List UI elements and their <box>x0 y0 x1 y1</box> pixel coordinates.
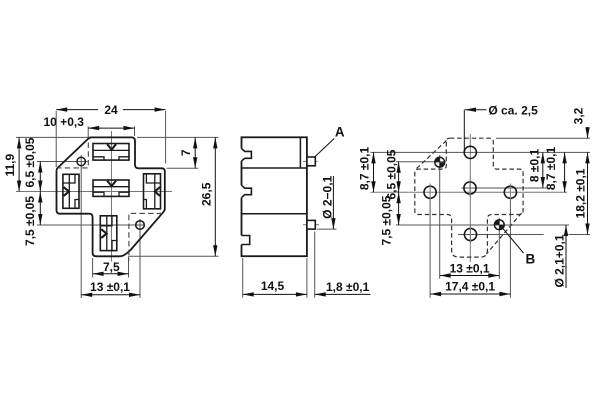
hidden corner dashed top-left <box>58 143 88 168</box>
svg-text:26,5: 26,5 <box>200 182 214 206</box>
extension line 7,5 bottom right <box>128 257 130 278</box>
extension line hole2 horizontal (for 7,5 left) <box>37 224 145 226</box>
middle view division line 2 <box>242 213 307 215</box>
label B leader <box>503 228 524 253</box>
notch 3 <box>240 236 249 245</box>
svg-text:1,8 ±0,1: 1,8 ±0,1 <box>326 280 370 294</box>
dimension 26,5 <box>200 137 216 256</box>
dimension 13 ±0,1 left view <box>81 280 140 295</box>
extension line top edge left (for 11,9) <box>16 136 91 138</box>
left view vertical center line <box>111 131 113 262</box>
dimension 7,5 ±0,05 right view <box>380 192 399 245</box>
dimension 13 ±0,1 right view <box>440 261 500 275</box>
dimension Ø 2,1+0,1 leader <box>553 225 567 288</box>
label B <box>525 252 535 267</box>
svg-text:Ø 2−0,1: Ø 2−0,1 <box>320 175 334 218</box>
Ø 2-0,1 leader with arrow <box>332 176 334 229</box>
middle view body <box>242 137 307 256</box>
dimension 24 <box>56 103 165 117</box>
extension line top hole horizontal <box>371 151 591 153</box>
extension line 7,5 bottom left <box>92 258 94 278</box>
svg-text:A: A <box>335 125 345 140</box>
svg-text:6,5 ±0,05: 6,5 ±0,05 <box>23 137 37 187</box>
svg-text:Ø ca. 2,5: Ø ca. 2,5 <box>488 104 538 118</box>
Ø 2-0,1 text <box>320 175 334 218</box>
peg A (upper) <box>307 157 315 166</box>
extension line hole1 vertical (for 13) <box>80 155 82 298</box>
left hole <box>424 184 436 202</box>
peg A center line <box>303 160 318 162</box>
right slot <box>144 174 161 209</box>
extension line 24 right <box>165 111 167 164</box>
dimension 18,2 ±0,1 <box>574 152 588 234</box>
svg-text:8 ±0,1: 8 ±0,1 <box>528 149 542 183</box>
extension line 1,8 right <box>314 232 316 298</box>
extension line 10+0,3 right <box>134 126 136 136</box>
svg-text:24: 24 <box>104 103 118 117</box>
extension line pin A horizontal <box>396 161 446 163</box>
svg-text:Ø 2,1+0,1: Ø 2,1+0,1 <box>553 234 567 287</box>
svg-text:7,5 ±0,05: 7,5 ±0,05 <box>380 195 394 245</box>
dimension 10+0,3 <box>44 115 135 129</box>
Ø ca. 2,5 text <box>488 104 538 118</box>
bottom slot <box>100 216 117 251</box>
svg-text:3,2: 3,2 <box>572 107 586 124</box>
dimension 8,7 ±0,1 left <box>358 147 374 193</box>
svg-text:11,9: 11,9 <box>3 154 17 177</box>
extension line hole1 horizontal (for 6,5) <box>37 161 88 163</box>
middle view inner vertical line <box>299 137 301 168</box>
pin B (filled) <box>494 220 504 230</box>
svg-text:6,5 ±0,05: 6,5 ±0,05 <box>384 149 398 199</box>
peg B (lower) <box>307 220 315 229</box>
right hole <box>504 184 516 202</box>
dimension 1,8 ±0,1 <box>315 280 371 294</box>
svg-text:8,7 ±0,1: 8,7 ±0,1 <box>544 147 558 191</box>
notch 2 <box>240 185 251 197</box>
extension line 10+0,3 left <box>87 126 89 137</box>
dimension 6,5 ±0,05 right view <box>384 149 398 199</box>
center hole <box>464 179 476 197</box>
dimension 6,5 ±0,05 left view <box>23 137 40 191</box>
svg-text:13 ±0,1: 13 ±0,1 <box>450 261 490 275</box>
right view dashed chamfer bottom-right <box>486 213 521 254</box>
pin A (filled) <box>435 157 445 167</box>
label A leader <box>315 139 334 157</box>
peg B center line <box>303 224 319 226</box>
left view outline <box>57 137 165 256</box>
svg-text:13 ±0,1: 13 ±0,1 <box>90 280 130 294</box>
hole top-left <box>77 157 85 165</box>
dimension 7,5 bottom <box>93 260 129 274</box>
Ø ca. 2,5 leader <box>464 110 486 151</box>
right view vertical center line <box>469 134 471 262</box>
svg-text:7,5 ±0,05: 7,5 ±0,05 <box>23 196 37 246</box>
svg-text:18,2 ±0,1: 18,2 ±0,1 <box>574 168 588 218</box>
svg-text:8,7 ±0,1: 8,7 ±0,1 <box>358 147 372 191</box>
extension line left hole vertical <box>429 199 431 298</box>
extension line hole2 vertical (for 13) <box>139 219 141 298</box>
notch 1 <box>240 149 251 161</box>
extension line right arm top (for 7) <box>167 167 199 169</box>
middle view division line 1 <box>242 167 307 169</box>
extension line pin B vertical <box>498 218 500 279</box>
bottom hole <box>464 226 476 243</box>
svg-text:B: B <box>525 252 535 267</box>
svg-text:10 +0,3: 10 +0,3 <box>44 115 85 129</box>
dimension 7 <box>179 137 195 168</box>
right view horizontal center line <box>371 191 568 193</box>
extension line bottom edge right (for 26,5) <box>128 255 219 257</box>
extension line top edge right view (for 3,2) <box>496 137 590 139</box>
top slot <box>93 144 129 161</box>
extension line top edge right (for 7 and 26,5) <box>137 136 219 138</box>
Ø 2-0,1 extension line <box>317 228 337 230</box>
extension line pin B horizontal <box>396 224 569 226</box>
extension line bottom hole horizontal <box>458 234 590 236</box>
top hole <box>464 146 476 158</box>
left view horizontal center line <box>16 191 172 193</box>
hole bottom-right <box>136 221 145 230</box>
dimension 8 ±0,1 <box>528 149 543 188</box>
dimension 14,5 <box>243 279 307 294</box>
hidden corner dashed bottom-right <box>129 213 162 260</box>
label A <box>335 125 345 140</box>
extension line 14,5 left <box>242 258 244 298</box>
extension line right hole vertical <box>509 199 511 298</box>
right view dashed outline <box>415 138 523 257</box>
extension line 24 left <box>55 111 57 167</box>
dimension 7,5 ±0,05 left view <box>23 192 40 246</box>
dimension 11,9 <box>3 137 19 191</box>
svg-text:7,5: 7,5 <box>103 260 120 274</box>
extension line 14,5 right <box>306 258 308 298</box>
dimension 17,4 ±0,1 <box>430 280 510 295</box>
dimension 8,7 ±0,1 right <box>544 147 565 193</box>
middle slot <box>93 180 129 196</box>
right view dashed chamfer top-left <box>416 141 446 169</box>
extension line pin A vertical <box>439 155 441 279</box>
extension line center hole horizontal <box>462 187 547 189</box>
svg-text:17,4 ±0,1: 17,4 ±0,1 <box>445 280 495 294</box>
svg-text:14,5: 14,5 <box>261 279 285 293</box>
dimension 3,2 <box>572 107 588 138</box>
left slot <box>63 174 79 208</box>
svg-text:7: 7 <box>179 149 193 156</box>
